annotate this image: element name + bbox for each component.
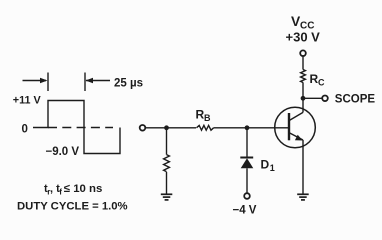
wire collector up to junction bbox=[302, 98, 304, 112]
terminal -4V node bbox=[244, 193, 250, 199]
svg-text:≤ 10 ns: ≤ 10 ns bbox=[64, 183, 103, 195]
label RB bbox=[196, 108, 212, 124]
wire base junction down to diode bbox=[246, 128, 248, 158]
wire RB to base junction bbox=[214, 127, 247, 129]
label VCC bbox=[291, 14, 314, 32]
label RC bbox=[310, 72, 326, 88]
wire collector junction to scope terminal bbox=[303, 97, 322, 99]
wire base junction to transistor base bbox=[247, 127, 289, 129]
value label tr tf <= 10 ns bbox=[44, 183, 102, 197]
junction dot collector node bbox=[301, 96, 306, 101]
svg-text:1: 1 bbox=[270, 163, 275, 173]
svg-text:SCOPE: SCOPE bbox=[335, 94, 376, 106]
svg-text:B: B bbox=[204, 113, 211, 123]
wire emitter down to ground bbox=[302, 140, 304, 194]
transistor Q1 bbox=[275, 107, 316, 148]
scope terminal node bbox=[322, 96, 328, 102]
input terminal node bbox=[140, 125, 146, 131]
label D1 bbox=[261, 158, 275, 174]
power terminal VCC bbox=[300, 50, 306, 56]
svg-text:DUTY CYCLE = 1.0%: DUTY CYCLE = 1.0% bbox=[17, 201, 128, 213]
zero reference dashed line bbox=[48, 127, 113, 129]
wire RC to collector junction bbox=[302, 82, 304, 98]
wire input terminal to junction bbox=[146, 127, 167, 129]
svg-text:D: D bbox=[261, 158, 270, 172]
ground (input shunt resistor) bbox=[161, 194, 173, 200]
diode D1 bbox=[240, 158, 253, 194]
input pulse waveform bbox=[33, 101, 120, 154]
wire junction to RB bbox=[167, 127, 197, 129]
resistor RB bbox=[197, 125, 214, 130]
svg-text:+30 V: +30 V bbox=[286, 30, 321, 45]
svg-text:0: 0 bbox=[22, 124, 28, 136]
ground (emitter) bbox=[297, 194, 309, 200]
svg-text:C: C bbox=[318, 78, 325, 88]
svg-text:f: f bbox=[59, 188, 62, 197]
pulse width dimension left arrow bbox=[23, 73, 49, 92]
svg-text:+11 V: +11 V bbox=[13, 95, 42, 107]
svg-text:−9.0 V: −9.0 V bbox=[46, 146, 80, 158]
resistor RC bbox=[301, 70, 306, 83]
junction dot input node bbox=[164, 125, 169, 130]
junction dot base node bbox=[245, 125, 250, 130]
pulse width dimension right arrow bbox=[85, 73, 110, 92]
resistor R1 (input shunt) bbox=[164, 128, 170, 194]
svg-text:−4 V: −4 V bbox=[233, 205, 257, 217]
svg-text:25 µs: 25 µs bbox=[114, 78, 143, 90]
wire VCC to RC bbox=[302, 56, 304, 70]
